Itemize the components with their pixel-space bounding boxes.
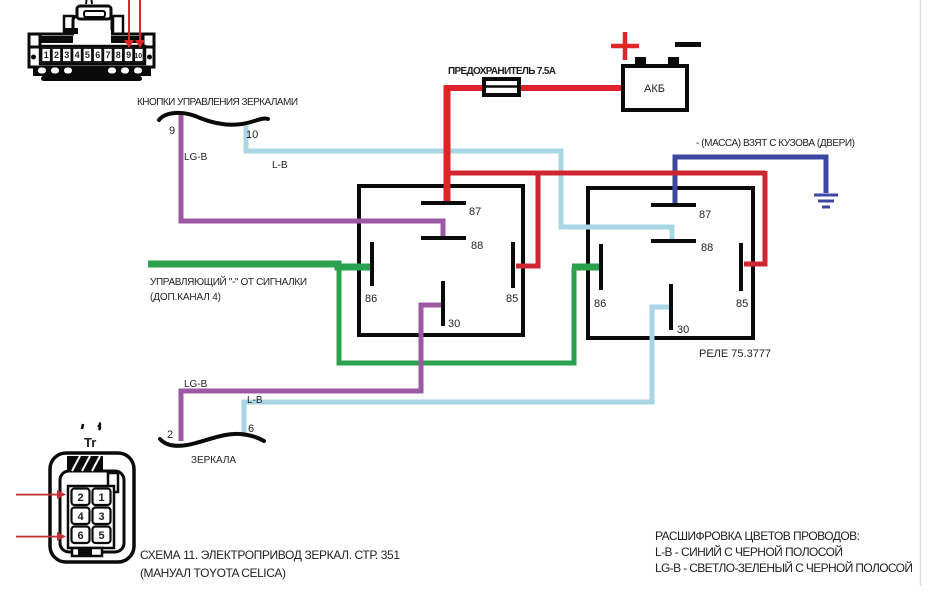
svg-text:85: 85 — [736, 298, 748, 310]
svg-text:86: 86 — [365, 293, 377, 305]
svg-text:L-B: L-B — [272, 160, 288, 171]
red arrow to pin 9 — [124, 0, 134, 48]
relay2 pin 86 bar — [599, 244, 603, 290]
svg-text:87: 87 — [469, 206, 481, 218]
svg-text:РАСШИФРОВКА ЦВЕТОВ ПРОВОДОВ:: РАСШИФРОВКА ЦВЕТОВ ПРОВОДОВ: — [655, 529, 860, 543]
relay K2 box — [588, 188, 753, 338]
wire squiggle (mirrors harness) — [160, 434, 264, 446]
red arrow to pin 6 — [16, 532, 66, 541]
svg-text:ПРЕДОХРАНИТЕЛЬ 7.5А: ПРЕДОХРАНИТЕЛЬ 7.5А — [448, 66, 556, 77]
wire ground blue to relay2 pin87 — [675, 157, 826, 205]
svg-text:АКБ: АКБ — [644, 83, 665, 95]
svg-text:РЕЛЕ 75.3777: РЕЛЕ 75.3777 — [699, 348, 771, 360]
svg-text:LG-B: LG-B — [184, 379, 208, 390]
svg-text:5: 5 — [98, 530, 104, 542]
svg-text:8: 8 — [116, 50, 121, 60]
wire green branch relay1 to relay2 pin86 — [339, 264, 574, 363]
svg-text:30: 30 — [448, 318, 460, 330]
svg-text:3: 3 — [98, 511, 104, 523]
wire LG-B relay1 pin30 to mirror pin2 — [181, 305, 443, 441]
connector X2 (mirrors, bottom-left) — [50, 423, 134, 562]
svg-text:9: 9 — [169, 125, 175, 137]
svg-text:L-B - СИНИЙ С ЧЕРНОЙ ПОЛОСОЙ: L-B - СИНИЙ С ЧЕРНОЙ ПОЛОСОЙ — [655, 544, 843, 559]
wire green from alarm to relay1 pin86 — [148, 264, 374, 267]
relay2 pin 87 bar — [651, 203, 696, 207]
svg-text:LG-B - СВЕТЛО-ЗЕЛЕНЫЙ С ЧЕРНОЙ: LG-B - СВЕТЛО-ЗЕЛЕНЫЙ С ЧЕРНОЙ ПОЛОСОЙ — [655, 560, 913, 575]
svg-text:СХЕМА 11. ЭЛЕКТРОПРИВОД ЗЕРКАЛ: СХЕМА 11. ЭЛЕКТРОПРИВОД ЗЕРКАЛ. СТР. 351 — [140, 548, 400, 562]
battery minus mark — [675, 42, 701, 47]
relay2 pin 88 bar — [651, 239, 696, 243]
wire green into relay2 pin86 — [572, 264, 603, 271]
battery plus mark — [611, 32, 639, 60]
svg-text:1: 1 — [44, 50, 49, 60]
svg-text:7: 7 — [105, 50, 110, 60]
svg-text:88: 88 — [471, 240, 483, 252]
svg-text:10: 10 — [246, 129, 258, 141]
svg-text:КНОПКИ УПРАВЛЕНИЯ ЗЕРКАЛАМИ: КНОПКИ УПРАВЛЕНИЯ ЗЕРКАЛАМИ — [137, 97, 298, 108]
svg-text:9: 9 — [126, 50, 131, 60]
svg-text:6: 6 — [95, 50, 100, 60]
svg-text:30: 30 — [677, 324, 689, 336]
svg-text:2: 2 — [77, 492, 83, 504]
relay1 pin 30 bar — [441, 281, 445, 326]
fuse F1 7.5A — [484, 79, 519, 95]
svg-text:3: 3 — [64, 50, 69, 60]
svg-text:5: 5 — [85, 50, 90, 60]
wire squiggle (switch harness) — [159, 113, 268, 125]
svg-text:87: 87 — [699, 209, 711, 221]
relay K1 box — [359, 186, 523, 335]
svg-text:(МАНУАЛ TOYOTA CELICA): (МАНУАЛ TOYOTA CELICA) — [140, 566, 286, 580]
svg-text:4: 4 — [75, 50, 80, 60]
svg-text:10: 10 — [134, 53, 142, 60]
relay2 pin 85 bar — [739, 243, 743, 291]
svg-text:6: 6 — [77, 530, 83, 542]
svg-text:2: 2 — [54, 50, 59, 60]
wire LG-B pin9 to relay1 pin88 — [181, 114, 443, 238]
relay1 pin 85 bar — [511, 242, 515, 288]
wire red drop to relay1 pin85 — [516, 171, 538, 266]
wire red main feed vertical — [444, 85, 451, 202]
battery AKB — [623, 57, 687, 110]
relay1 pin 86 bar — [370, 242, 374, 286]
wire red drop to relay2 pin85 — [744, 171, 765, 264]
relay1 pin 88 bar — [421, 236, 466, 240]
ground symbol — [814, 195, 838, 207]
svg-text:86: 86 — [594, 298, 606, 310]
wire L-B pin10 to relay2 pin88 — [246, 126, 672, 241]
wire red main feed horizontal to battery — [444, 85, 624, 91]
page edge line — [920, 0, 922, 586]
svg-text:(ДОП.КАНАЛ 4): (ДОП.КАНАЛ 4) — [150, 292, 221, 303]
connector X1 (mirror switch, top-left) — [29, 0, 154, 81]
relay1 pin 87 bar — [421, 201, 466, 205]
wire red branch to pins 85 — [447, 171, 765, 176]
svg-text:- (МАССА) ВЗЯТ С КУЗОВА (ДВЕРИ: - (МАССА) ВЗЯТ С КУЗОВА (ДВЕРИ) — [696, 138, 855, 149]
svg-text:Tr: Tr — [84, 435, 96, 450]
svg-text:85: 85 — [506, 293, 518, 305]
svg-text:1: 1 — [98, 492, 104, 504]
relay1 pin bars — [372, 203, 741, 330]
wire L-B relay2 pin30 to mirror pin6 — [244, 307, 673, 434]
svg-text:88: 88 — [701, 242, 713, 254]
svg-text:ЗЕРКАЛА: ЗЕРКАЛА — [191, 455, 236, 466]
svg-text:4: 4 — [77, 511, 84, 523]
svg-text:2: 2 — [167, 429, 173, 441]
svg-text:6: 6 — [248, 423, 254, 435]
svg-text:LG-B: LG-B — [184, 152, 208, 163]
svg-text:L-B: L-B — [247, 395, 263, 406]
svg-text:УПРАВЛЯЮЩИЙ "-" ОТ СИГНАЛКИ: УПРАВЛЯЮЩИЙ "-" ОТ СИГНАЛКИ — [150, 275, 307, 288]
red arrow to pin 10 — [135, 0, 145, 48]
relay2 pin 30 bar — [669, 284, 673, 330]
red arrow to pin 2 — [16, 490, 66, 499]
